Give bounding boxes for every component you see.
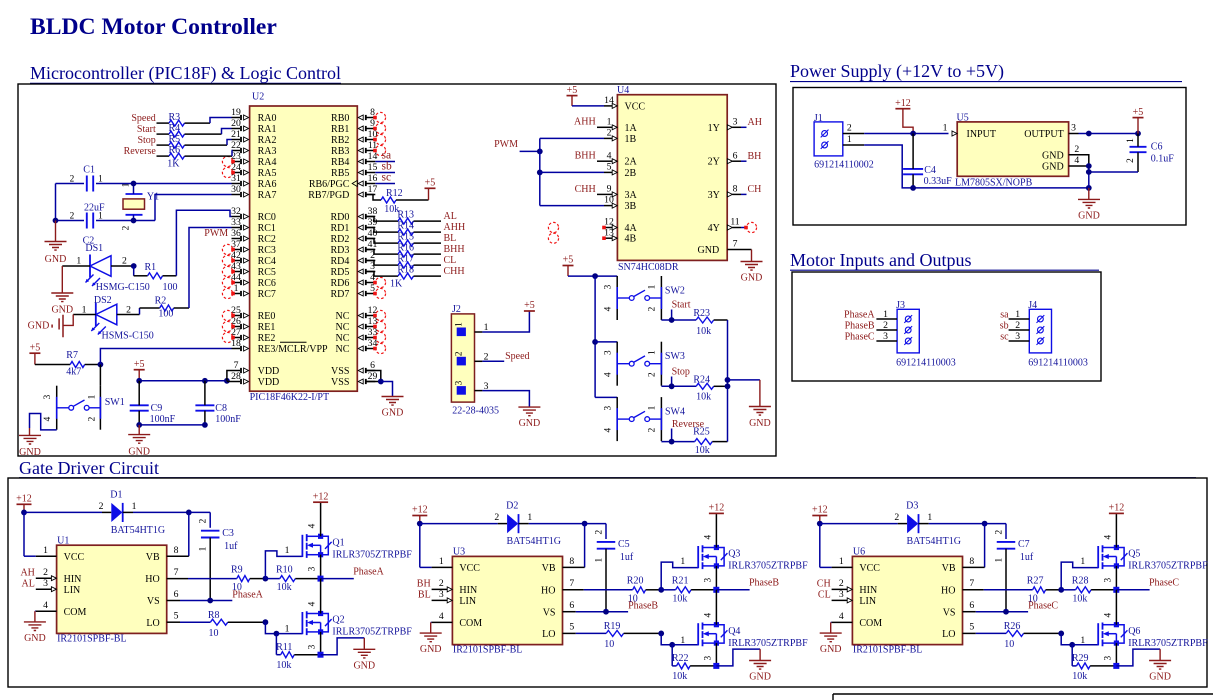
svg-text:1: 1 — [847, 134, 852, 145]
svg-text:AL: AL — [22, 579, 35, 590]
svg-text:33: 33 — [231, 217, 241, 228]
svg-text:NC: NC — [335, 322, 349, 333]
svg-text:0.33uF: 0.33uF — [924, 176, 953, 187]
svg-text:+5: +5 — [563, 255, 574, 266]
svg-text:GND: GND — [1042, 162, 1064, 173]
U2 pin 31 RA6 — [231, 173, 276, 190]
net label AHH — [444, 222, 466, 233]
svg-text:1Y: 1Y — [708, 123, 720, 134]
wire D3 cathode to VB and C7 — [929, 521, 1006, 568]
wire PWM trunk to U4 — [520, 138, 604, 205]
svg-text:RC0: RC0 — [258, 212, 276, 223]
svg-text:3Y: 3Y — [708, 190, 720, 201]
svg-text:SW3: SW3 — [665, 351, 685, 362]
svg-text:2: 2 — [607, 128, 612, 139]
svg-text:3: 3 — [1103, 578, 1113, 583]
value label 1K for R13-R18 — [390, 279, 403, 290]
svg-text:PhaseA: PhaseA — [353, 566, 384, 577]
svg-text:sc: sc — [1000, 331, 1009, 342]
resistor R24 — [661, 374, 727, 402]
svg-text:Q4: Q4 — [728, 626, 740, 637]
net label sa — [375, 150, 395, 162]
U2 pin 41 RD3 — [330, 239, 377, 256]
svg-text:RB5: RB5 — [331, 168, 349, 179]
wire +12 rail to D3 — [817, 521, 898, 568]
U6 pin 1 VCC — [832, 556, 881, 574]
svg-text:IR2101SPBF-BL: IR2101SPBF-BL — [57, 634, 126, 645]
U6 part number IR2101SPBF-BL — [853, 645, 922, 656]
svg-text:C5: C5 — [618, 539, 630, 550]
U2 pin 40 RD2 — [330, 228, 377, 245]
svg-text:18: 18 — [231, 338, 241, 349]
resistor R19 — [576, 621, 661, 650]
net label BL — [418, 590, 431, 601]
ground for switches — [749, 407, 771, 429]
svg-text:NC: NC — [335, 344, 349, 355]
svg-text:1: 1 — [199, 546, 209, 551]
svg-text:5: 5 — [607, 162, 612, 173]
svg-text:2: 2 — [43, 567, 48, 578]
svg-text:C1: C1 — [83, 165, 95, 176]
svg-text:PhaseC: PhaseC — [1149, 578, 1179, 589]
svg-text:GND: GND — [749, 672, 771, 683]
svg-text:10k: 10k — [1072, 593, 1087, 604]
svg-text:4: 4 — [439, 611, 444, 622]
svg-text:AH: AH — [748, 117, 762, 128]
svg-text:2: 2 — [894, 512, 899, 523]
svg-text:RC3: RC3 — [258, 245, 276, 256]
U2 pin 33 RC1 — [231, 217, 276, 234]
net label AL — [22, 579, 35, 590]
U4 pin 13 4B — [604, 227, 637, 244]
svg-text:LO: LO — [146, 618, 159, 629]
svg-text:LIN: LIN — [459, 596, 476, 607]
power port +12 for U3 — [412, 505, 428, 524]
svg-text:RD5: RD5 — [330, 267, 349, 278]
U1 pin 4 COM — [36, 600, 87, 618]
wire SW1 pin4 to ground — [30, 414, 57, 436]
ground for DS1 — [51, 293, 73, 316]
wire D2 cathode to VB and C5 — [529, 521, 606, 568]
wire J1 pin2 to U5 input — [864, 131, 948, 137]
svg-text:Stop: Stop — [137, 135, 155, 146]
svg-text:3: 3 — [733, 116, 738, 127]
ground for power supply — [1078, 188, 1100, 222]
svg-text:6: 6 — [174, 589, 179, 600]
J2 pin 2 — [455, 351, 489, 365]
svg-text:9: 9 — [607, 184, 612, 195]
svg-text:38: 38 — [368, 206, 378, 217]
U6 pin 7 HO — [941, 578, 984, 596]
U4 pin 12 4A — [604, 217, 638, 234]
svg-text:INPUT: INPUT — [967, 129, 996, 140]
svg-text:PhaseB: PhaseB — [749, 578, 779, 589]
svg-text:RD2: RD2 — [330, 234, 349, 245]
svg-text:3: 3 — [603, 284, 613, 289]
svg-text:RC6: RC6 — [258, 278, 276, 289]
svg-text:Stop: Stop — [672, 367, 690, 378]
svg-text:PWM: PWM — [204, 228, 228, 239]
svg-text:3: 3 — [703, 578, 713, 583]
svg-text:3: 3 — [603, 350, 613, 355]
U4 pin 10 3B — [604, 195, 637, 212]
svg-text:IRLR3705ZTRPBF: IRLR3705ZTRPBF — [1128, 561, 1208, 572]
svg-text:AHH: AHH — [444, 222, 466, 233]
svg-text:RD3: RD3 — [330, 245, 349, 256]
svg-text:Start: Start — [672, 300, 691, 311]
svg-text:3: 3 — [883, 331, 888, 342]
net label Stop — [672, 367, 690, 387]
J2 pin 3 — [455, 380, 489, 394]
svg-text:1: 1 — [1126, 138, 1136, 143]
svg-text:16: 16 — [368, 173, 378, 184]
U2 pin 12 NC — [335, 305, 385, 322]
resistor R16 — [367, 243, 442, 257]
net label sb — [375, 161, 395, 173]
svg-text:VS: VS — [543, 607, 556, 618]
svg-text:4: 4 — [43, 416, 53, 421]
svg-text:RD7: RD7 — [330, 289, 349, 300]
U5 pin 4 GND — [1042, 155, 1089, 173]
net label PhaseB phase output — [749, 578, 779, 589]
svg-text:10k: 10k — [276, 660, 291, 671]
svg-text:OUTPUT: OUTPUT — [1024, 129, 1063, 140]
U2 pin 34 NC — [335, 338, 385, 355]
net label sc — [375, 172, 395, 184]
svg-text:1: 1 — [285, 624, 290, 635]
svg-text:RE0: RE0 — [258, 311, 276, 322]
wire R20 junction to Q3 gate — [661, 556, 698, 590]
ground for U2 VSS — [382, 397, 404, 419]
U2 pin 15 RB5 — [331, 162, 377, 179]
U2 pin 6 VSS — [331, 360, 375, 377]
svg-text:RB3: RB3 — [331, 146, 349, 157]
svg-text:1B: 1B — [625, 134, 637, 145]
svg-text:RB7/PGD: RB7/PGD — [308, 190, 349, 201]
svg-text:sc: sc — [382, 172, 392, 184]
net label BHH at U4 — [575, 151, 604, 162]
U2 pin 28 VDD — [231, 371, 279, 388]
net label CH — [817, 579, 831, 590]
svg-text:10k: 10k — [696, 392, 711, 403]
transistor Q5 IRLR3705 — [1098, 513, 1208, 589]
wire DS2 to R2 — [117, 308, 140, 315]
U5 pin 1 INPUT — [943, 122, 996, 140]
net label Reverse — [124, 146, 157, 157]
svg-text:+5: +5 — [567, 85, 578, 96]
driver chip U1 IR2101 body — [57, 536, 167, 634]
svg-text:J4: J4 — [1028, 300, 1037, 311]
U4 pin 8 3Y — [708, 184, 741, 201]
switch SW3 — [603, 342, 685, 386]
svg-text:21: 21 — [231, 129, 241, 140]
svg-text:10: 10 — [604, 195, 614, 206]
svg-text:3A: 3A — [625, 190, 638, 201]
driver chip U6 IR2101 body — [852, 547, 962, 645]
svg-text:R22: R22 — [672, 653, 689, 664]
svg-text:CL: CL — [444, 255, 457, 266]
svg-text:1: 1 — [132, 501, 137, 512]
wire phase node of Q3 Q4 — [713, 587, 749, 593]
U2 pin 25 RE0 — [222, 305, 275, 322]
svg-text:1: 1 — [680, 556, 685, 567]
crystal Y1 — [122, 182, 160, 230]
U4 pin 9 3A — [604, 184, 638, 201]
capacitor C2 — [70, 212, 104, 247]
U4 pin 14 VCC — [604, 95, 645, 112]
J4 pin 2 sb — [1000, 320, 1045, 334]
net label Stop — [137, 135, 155, 146]
J3 part number 691214110003 — [896, 358, 956, 369]
svg-text:U5: U5 — [957, 112, 969, 123]
wire U5 output to +5 — [1079, 131, 1141, 137]
wire COM to ground — [34, 611, 37, 622]
svg-text:GND: GND — [1078, 210, 1100, 221]
resistor R7 — [35, 350, 101, 377]
net label PWM at RC2 — [204, 228, 228, 239]
wire COM to ground — [430, 622, 433, 633]
U2 pin 2 RD4 — [330, 250, 375, 267]
svg-text:COM: COM — [64, 607, 87, 618]
svg-text:2: 2 — [648, 427, 658, 432]
svg-text:VSS: VSS — [331, 377, 349, 388]
svg-text:32: 32 — [231, 206, 241, 217]
svg-text:RE3/MCLR/VPP: RE3/MCLR/VPP — [258, 344, 328, 355]
svg-text:4: 4 — [703, 613, 713, 618]
svg-text:1: 1 — [439, 556, 444, 567]
svg-text:4Y: 4Y — [708, 223, 720, 234]
U2 pin 38 RD0 — [330, 206, 377, 223]
U6 pin 4 COM — [832, 611, 883, 629]
U3 pin 7 HO — [541, 578, 584, 596]
svg-text:7: 7 — [733, 239, 738, 250]
svg-text:HO: HO — [541, 585, 555, 596]
power supply section frame — [793, 88, 1186, 226]
svg-text:RD1: RD1 — [330, 223, 349, 234]
svg-text:5: 5 — [569, 622, 574, 633]
svg-text:7: 7 — [569, 578, 574, 589]
microcontroller section frame — [18, 84, 776, 456]
svg-text:VB: VB — [942, 563, 956, 574]
svg-text:2Y: 2Y — [708, 157, 720, 168]
svg-text:Motor Inputs and Outpus: Motor Inputs and Outpus — [790, 250, 972, 270]
wire bus to ground — [728, 380, 760, 407]
svg-text:IRLR3705ZTRPBF: IRLR3705ZTRPBF — [332, 627, 412, 638]
value label 22uF — [84, 203, 105, 214]
U2 pin 42 RC4 — [222, 250, 276, 267]
driver chip U3 IR2101 body — [452, 547, 562, 645]
svg-text:RC2: RC2 — [258, 234, 276, 245]
wire phase node of Q1 Q2 — [318, 576, 354, 582]
svg-text:HSMS-C150: HSMS-C150 — [102, 331, 154, 342]
svg-text:GND: GND — [820, 644, 842, 655]
net label AH — [20, 568, 34, 579]
U2 part number PIC18F46K22-I/PT — [250, 392, 329, 403]
power port +12 supply — [895, 98, 913, 134]
svg-text:3: 3 — [603, 405, 613, 410]
wire U2 pin7 jog — [227, 371, 232, 381]
svg-text:31: 31 — [231, 173, 241, 184]
svg-text:1: 1 — [648, 284, 658, 289]
svg-text:3: 3 — [1015, 331, 1020, 342]
svg-text:RC5: RC5 — [258, 267, 276, 278]
resistor R26 — [976, 621, 1061, 650]
wire R8 to Q2 gate — [263, 619, 303, 654]
wire DS1 anode to ground — [62, 266, 90, 293]
svg-text:VB: VB — [146, 552, 160, 563]
svg-text:3: 3 — [455, 380, 465, 385]
svg-text:PWM: PWM — [494, 139, 518, 150]
wire J1 pin1 to ground rail — [864, 145, 1092, 191]
U6 pin 3 LIN — [832, 589, 876, 607]
svg-text:8: 8 — [733, 184, 738, 195]
svg-text:C6: C6 — [1151, 142, 1163, 153]
svg-text:3B: 3B — [625, 201, 637, 212]
svg-text:IR2101SPBF-BL: IR2101SPBF-BL — [853, 645, 922, 656]
svg-text:3: 3 — [308, 644, 318, 649]
svg-text:J1: J1 — [814, 113, 823, 124]
svg-text:2: 2 — [455, 351, 465, 356]
svg-text:+12: +12 — [412, 505, 428, 516]
motor inputs section frame — [792, 272, 1101, 381]
svg-text:4: 4 — [1103, 613, 1113, 618]
svg-text:2: 2 — [847, 122, 852, 133]
svg-text:sb: sb — [1000, 320, 1009, 331]
wire J2 pin3 to ground — [482, 391, 529, 408]
J1 pin 2 jack — [821, 122, 865, 137]
svg-text:PhaseB: PhaseB — [845, 320, 875, 331]
svg-text:3: 3 — [43, 578, 48, 589]
U4 outputs AH BH CH — [741, 117, 762, 195]
svg-text:2: 2 — [122, 256, 127, 267]
svg-text:U2: U2 — [252, 92, 264, 103]
svg-text:10: 10 — [1004, 639, 1014, 650]
net label Speed at J2 — [505, 351, 529, 362]
svg-text:10k: 10k — [277, 582, 292, 593]
svg-text:U3: U3 — [453, 547, 465, 558]
J4 pin 3 sc — [1000, 331, 1044, 345]
net label PhaseA at VS — [232, 589, 263, 600]
net label CHH at U4 — [575, 184, 604, 195]
resistor R20 — [584, 576, 661, 605]
svg-text:BHH: BHH — [444, 244, 465, 255]
svg-text:+12: +12 — [895, 98, 911, 109]
svg-text:GND: GND — [382, 408, 404, 419]
svg-text:1: 1 — [455, 322, 465, 327]
switch SW1 — [43, 365, 125, 430]
resistor R12 — [367, 188, 429, 215]
svg-text:3: 3 — [839, 589, 844, 600]
svg-text:10: 10 — [628, 593, 638, 604]
U4 pin 3 1Y — [708, 116, 741, 133]
svg-text:RC4: RC4 — [258, 256, 276, 267]
svg-text:8: 8 — [969, 556, 974, 567]
svg-text:28: 28 — [231, 371, 241, 382]
svg-text:4: 4 — [308, 601, 318, 606]
svg-text:2: 2 — [122, 225, 132, 230]
svg-text:HIN: HIN — [64, 574, 82, 585]
svg-text:R20: R20 — [627, 576, 644, 587]
svg-text:IR2101SPBF-BL: IR2101SPBF-BL — [453, 645, 522, 656]
svg-text:Q2: Q2 — [332, 615, 344, 626]
svg-text:LO: LO — [542, 629, 555, 640]
connector J3 body — [896, 300, 919, 353]
svg-text:1: 1 — [648, 405, 658, 410]
U2 pin 33 NC — [335, 327, 385, 344]
svg-text:BL: BL — [418, 590, 431, 601]
svg-text:2: 2 — [883, 320, 888, 331]
connector J4 body — [1028, 300, 1051, 353]
resistor R9 — [188, 564, 265, 593]
U1 pin 2 HIN — [36, 567, 82, 585]
svg-text:GND: GND — [45, 254, 67, 265]
no connect U4 4A 4B — [548, 222, 605, 243]
svg-text:D3: D3 — [906, 501, 918, 512]
net label CL — [444, 255, 457, 266]
svg-text:R28: R28 — [1072, 576, 1089, 587]
svg-text:+5: +5 — [30, 342, 41, 353]
svg-text:R7: R7 — [66, 350, 78, 361]
svg-text:Speed: Speed — [131, 113, 155, 124]
resistor R28 — [1058, 576, 1116, 605]
svg-text:Power Supply (+12V to +5V): Power Supply (+12V to +5V) — [790, 61, 1004, 82]
transistor Q4 IRLR3705 — [698, 590, 808, 666]
svg-text:8: 8 — [174, 545, 179, 556]
resistor R8 — [180, 610, 265, 639]
power port +5 for J2 — [524, 300, 535, 311]
diode D1 BAT54HT1G — [99, 490, 166, 537]
svg-text:BHH: BHH — [575, 151, 596, 162]
svg-text:2A: 2A — [625, 157, 638, 168]
svg-text:29: 29 — [368, 371, 378, 382]
U3 pin 4 COM — [432, 611, 483, 629]
svg-text:VCC: VCC — [859, 563, 880, 574]
svg-text:RD0: RD0 — [330, 212, 349, 223]
U2 pin 17 RB7/PGD — [308, 184, 377, 201]
U2 pin 19 RA0 — [231, 107, 276, 124]
resistor R29 — [1072, 653, 1116, 682]
svg-text:VCC: VCC — [625, 101, 646, 112]
svg-text:6: 6 — [569, 600, 574, 611]
svg-text:IRLR3705ZTRPBF: IRLR3705ZTRPBF — [332, 550, 412, 561]
svg-text:+5: +5 — [134, 359, 145, 370]
wire R26 to Q6 gate — [1058, 631, 1098, 666]
transistor Q3 IRLR3705 — [698, 513, 808, 589]
U2 pin 18 RE3/MCLR/VPP — [231, 338, 328, 355]
resistor R18 — [367, 265, 442, 279]
J2 pin 1 — [455, 322, 489, 336]
wire VS to PhaseA net — [576, 609, 628, 615]
U2 designator — [252, 92, 264, 103]
U2 pin 4 RD6 — [330, 272, 385, 289]
power port +12 for Q1 — [313, 491, 329, 502]
U4 pin 1 1A — [604, 116, 638, 133]
svg-text:BH: BH — [417, 579, 431, 590]
ground for U1 COM — [24, 622, 46, 644]
U1 pin 3 LIN — [36, 578, 80, 596]
svg-text:4: 4 — [603, 372, 613, 377]
U1 pin 8 VB — [146, 545, 189, 563]
transistor Q1 IRLR3705 — [302, 502, 412, 578]
svg-text:RE1: RE1 — [258, 322, 276, 333]
svg-text:RC1: RC1 — [258, 223, 276, 234]
svg-text:R2: R2 — [155, 296, 167, 307]
svg-text:2: 2 — [199, 518, 209, 523]
U4 part number SN74HC08DR — [618, 262, 679, 273]
svg-text:3: 3 — [1071, 122, 1076, 133]
U2 pin 30 RA7 — [231, 184, 276, 201]
net label BL — [444, 233, 457, 244]
